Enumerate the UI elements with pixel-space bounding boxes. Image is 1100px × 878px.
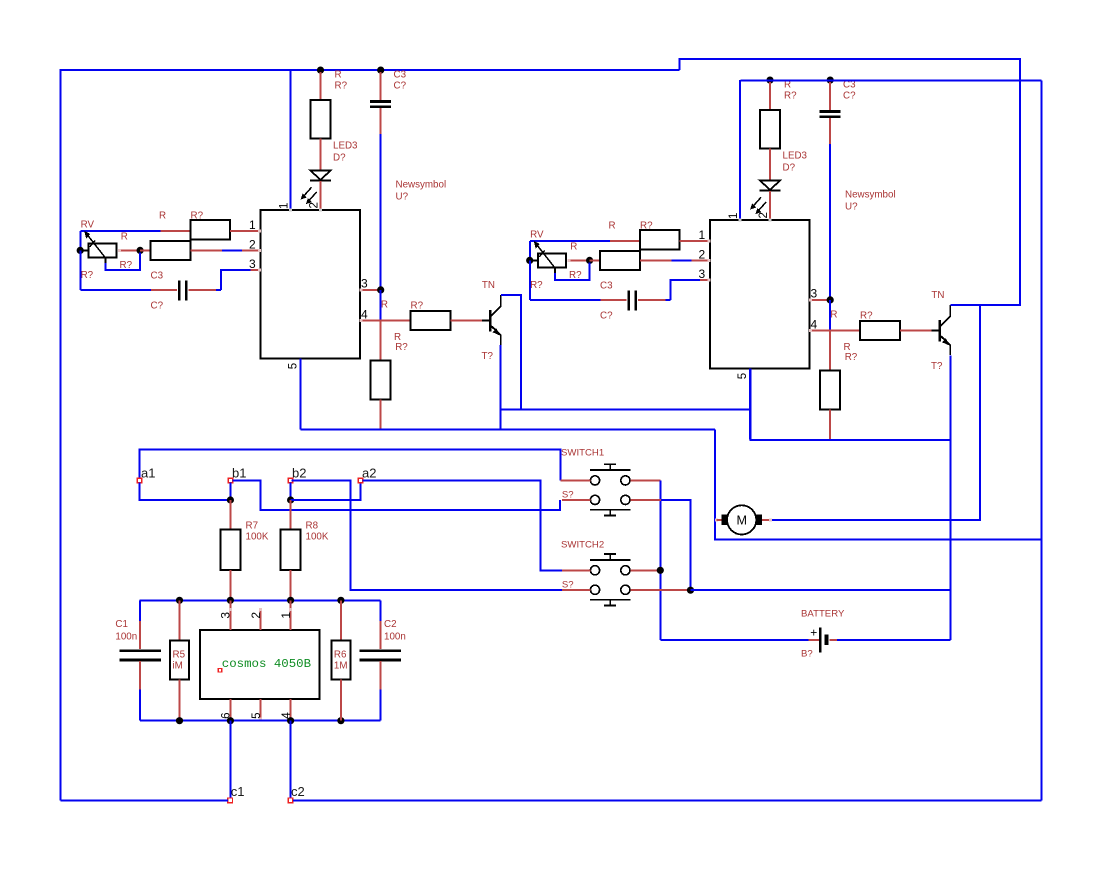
svg-text:C3: C3 <box>151 270 164 281</box>
switch SWITCH2 actuator top <box>604 553 616 555</box>
svg-text:RV: RV <box>81 220 95 231</box>
svg-text:C?: C? <box>843 91 856 102</box>
port a2 <box>358 478 363 483</box>
wire motor right riser <box>771 305 980 520</box>
svg-text:5: 5 <box>251 712 263 718</box>
wire a2 to SWITCH2 row1 <box>363 480 562 570</box>
pin 4 lead and base resistor R? (right) <box>809 329 860 331</box>
RV hook wire (wiper tie) (right) <box>554 268 556 273</box>
svg-text:R?: R? <box>120 260 133 271</box>
LED D? LED3 (left) <box>311 171 331 180</box>
svg-text:1: 1 <box>728 213 740 219</box>
svg-text:5: 5 <box>737 373 749 379</box>
svg-text:C?: C? <box>600 310 613 321</box>
wire RV left down to C3b (left) <box>80 250 82 290</box>
pin 5 of 4050 (bottom, open) <box>260 699 262 719</box>
svg-text:TN: TN <box>931 290 944 301</box>
wire c2 drop <box>290 721 292 799</box>
junction C1/R5 top <box>176 597 183 604</box>
svg-text:U?: U? <box>845 202 858 213</box>
svg-text:R: R <box>609 221 616 232</box>
svg-text:R?: R? <box>81 270 94 281</box>
pin 2 wire (left) <box>190 249 222 251</box>
capacitor C2 100n <box>380 600 382 621</box>
svg-text:c2: c2 <box>291 784 305 799</box>
pin 6 of 4050 (bottom) <box>229 699 231 721</box>
svg-text:B?: B? <box>801 649 813 660</box>
svg-text:R?: R? <box>845 352 858 363</box>
wire b1 to node <box>229 483 231 500</box>
junction pin3/C3 node (right) <box>827 296 834 303</box>
junction RV right (left) <box>137 247 144 254</box>
wire pin5 riser (left) <box>300 359 302 430</box>
wire left emitter down <box>499 345 501 430</box>
svg-text:1: 1 <box>279 203 291 209</box>
port c2 <box>288 798 293 803</box>
svg-text:R?: R? <box>569 270 582 281</box>
wire right outer vertical <box>1040 81 1042 801</box>
svg-text:2: 2 <box>309 202 321 208</box>
svg-text:R?: R? <box>860 311 873 322</box>
outer border left + top rail (left circuit) <box>60 70 679 800</box>
port b2 <box>288 478 293 483</box>
svg-text:a1: a1 <box>141 465 155 480</box>
wire capacitor C3b to pin 3 (right) <box>638 299 666 301</box>
wire battery- from switch drop <box>660 639 808 641</box>
wire b2 run to SWITCH2 row2 <box>292 480 562 590</box>
svg-text:SWITCH2: SWITCH2 <box>561 540 604 551</box>
resistor R (pin2 series) (right) <box>590 259 600 261</box>
svg-text:3: 3 <box>699 267 706 281</box>
svg-text:R?: R? <box>395 342 408 353</box>
pin 2 of 4050 (top, open) <box>260 610 262 631</box>
junction C1/R5 bottom <box>176 717 183 724</box>
switch SWITCH2 actuator bottom <box>590 599 631 601</box>
svg-text:3: 3 <box>219 612 233 619</box>
wire b2 to node <box>290 483 292 500</box>
switch2 row1 right lead <box>631 569 661 571</box>
op-amp/IC U? Newsymbol body (left) <box>261 210 360 359</box>
wire left bottom rail <box>301 429 716 431</box>
potentiometer RV (right) <box>531 259 538 261</box>
svg-text:Newsymbol: Newsymbol <box>396 180 447 191</box>
svg-text:U?: U? <box>396 192 409 203</box>
wire bottom rail right segment <box>293 799 1042 801</box>
pin 3 of 4050 (top) <box>229 600 231 630</box>
switch2 row2 right lead <box>631 589 691 591</box>
switch1 row1 right lead + drop to switch2 <box>631 479 661 481</box>
pin end markers (right) <box>707 239 710 242</box>
svg-text:R7: R7 <box>246 521 259 532</box>
pin 1 of 4050 (top) <box>290 600 292 630</box>
switch2 row2 left lead <box>562 589 590 591</box>
junction switch rows2 / battery+ bus <box>687 587 694 594</box>
wire RV left to pin1 wire corner (left) <box>80 231 82 251</box>
junction on top rail above capacitor C3 (left) <box>377 67 384 74</box>
wire b2 node to a2 <box>291 483 361 500</box>
junction on top rail above capacitor C3 (right) <box>827 77 834 84</box>
resistor R7 100K <box>229 500 231 530</box>
svg-text:T?: T? <box>482 351 494 362</box>
LED light arrows (right) <box>753 197 761 206</box>
switch1 row1 left lead <box>561 479 591 481</box>
op-amp/IC U? Newsymbol body (right) <box>710 220 809 369</box>
potentiometer RV (left) <box>81 249 88 251</box>
wire bottom rail of 4050 block <box>140 720 381 722</box>
svg-text:R?: R? <box>411 301 424 312</box>
svg-text:D?: D? <box>333 153 346 164</box>
transistor T? TN (right) <box>932 329 940 331</box>
wire right top rail <box>740 80 1041 82</box>
svg-text:T?: T? <box>931 361 943 372</box>
resistor R5 iM <box>179 600 181 640</box>
wire emitter/pin5 cross rail to right IC pin5 <box>500 409 750 411</box>
pin 4 of 4050 (bottom) <box>290 699 292 721</box>
wire to capacitor C3b (right) <box>530 299 601 301</box>
svg-text:R6: R6 <box>334 650 347 661</box>
wire right collector link <box>950 304 1020 306</box>
resistor R/R? pulldown vertical (left) <box>380 320 382 360</box>
svg-text:C3: C3 <box>600 280 613 291</box>
junction pin4 bottom <box>287 717 294 724</box>
wire top rail of 4050 block <box>140 599 381 601</box>
wire RV left down to C3b (right) <box>529 260 531 300</box>
wire b1 long run to SWITCH1 row2 <box>233 480 561 510</box>
switch SWITCH1 contacts row2 <box>590 495 599 504</box>
svg-text:b1: b1 <box>232 465 246 480</box>
svg-text:R: R <box>381 300 388 311</box>
svg-text:R: R <box>121 232 128 243</box>
wire pin5 riser (right) <box>749 369 751 440</box>
svg-text:cosmos 4050B: cosmos 4050B <box>222 657 311 671</box>
resistor R/R? vertical (LED series) (left) <box>320 72 322 100</box>
resistor R6 1M <box>340 600 342 640</box>
capacitor C1 100n <box>139 600 141 621</box>
svg-text:100n: 100n <box>384 631 406 642</box>
junction pin3 top <box>227 597 234 604</box>
wire net-top rail (right): pin1 riser <box>739 80 741 220</box>
svg-text:TN: TN <box>482 280 495 291</box>
wire RV left to pin1 wire corner (right) <box>529 241 531 261</box>
pin 2 wire (right) <box>640 259 672 261</box>
wire rows2 bus to battery+ riser <box>691 589 951 591</box>
junction R6 bottom <box>337 717 344 724</box>
svg-text:BATTERY: BATTERY <box>801 609 845 620</box>
wire pin3 node down (right) <box>829 300 831 331</box>
resistor R/R? pulldown vertical (right) <box>829 330 831 370</box>
pin end markers (left) <box>258 229 261 232</box>
svg-text:a2: a2 <box>362 465 376 480</box>
label anchor square (cosmos) <box>218 668 222 672</box>
svg-text:SWITCH1: SWITCH1 <box>561 448 604 459</box>
svg-text:100n: 100n <box>115 631 137 642</box>
svg-text:R?: R? <box>191 211 204 222</box>
switch2 row1 left lead <box>562 569 590 571</box>
svg-text:iM: iM <box>173 661 183 672</box>
switch SWITCH1 actuator top <box>604 463 616 465</box>
capacitor C3/C? top (left) <box>380 72 382 100</box>
wire rail drop to lower bus <box>715 430 1041 540</box>
svg-text:b2: b2 <box>292 465 306 480</box>
svg-text:1: 1 <box>699 228 706 242</box>
RV wiper lead to junction (right) <box>567 259 570 262</box>
switch1 row2 right lead + drop <box>631 499 661 501</box>
pin 1 lead with resistor R? (left) <box>81 230 161 232</box>
wire pin3 node down (left) <box>380 290 382 321</box>
wire right pin5 riser/rail <box>750 369 950 440</box>
junction R6 top <box>337 597 344 604</box>
capacitor C3/C? top (right) <box>829 82 831 110</box>
IC U? cosmos 4050B body <box>200 630 319 699</box>
junction pin3/C3 node (left) <box>377 286 384 293</box>
svg-text:1M: 1M <box>334 661 348 672</box>
wire C3 to pin3 node (right) <box>829 144 831 300</box>
svg-text:3: 3 <box>249 257 256 271</box>
port a1 <box>137 478 142 483</box>
svg-text:LED3: LED3 <box>783 151 808 162</box>
svg-text:M: M <box>736 513 747 527</box>
svg-text:R?: R? <box>530 280 543 291</box>
svg-text:R: R <box>159 211 166 222</box>
svg-text:RV: RV <box>530 230 544 241</box>
wire to capacitor C3b (left) <box>81 289 152 291</box>
junction pin6 bottom <box>227 717 234 724</box>
wire net-top rail (left): pin1 riser <box>290 70 292 210</box>
svg-text:2: 2 <box>249 612 263 619</box>
wire bottom rail left segment <box>60 799 227 801</box>
junction pin1 top <box>287 597 294 604</box>
wire c1 drop <box>229 721 231 799</box>
svg-text:C?: C? <box>151 300 164 311</box>
svg-text:R?: R? <box>335 81 348 92</box>
svg-text:R8: R8 <box>306 521 319 532</box>
junction RV left (right) <box>526 257 533 264</box>
svg-text:LED3: LED3 <box>333 141 358 152</box>
capacitor C3/C? lower (right) <box>627 291 630 311</box>
svg-text:+: + <box>810 626 817 640</box>
svg-text:R: R <box>830 310 837 321</box>
svg-text:100K: 100K <box>306 532 329 543</box>
pin 3 right lead (left) <box>360 289 378 291</box>
svg-text:R5: R5 <box>173 650 186 661</box>
wire capacitor C3b to pin 3 (left) <box>188 289 216 291</box>
svg-text:1: 1 <box>279 612 293 619</box>
switch SWITCH2 contacts row1 <box>590 566 599 575</box>
junction b1 node <box>227 496 234 503</box>
svg-text:R?: R? <box>784 91 797 102</box>
capacitor C3/C? lower (left) <box>178 281 181 301</box>
svg-text:C1: C1 <box>115 619 128 630</box>
RV wiper lead to junction (left) <box>118 249 121 252</box>
svg-text:R?: R? <box>640 221 653 232</box>
wire right emitter to battery <box>949 355 951 639</box>
svg-text:100K: 100K <box>246 532 269 543</box>
svg-text:D?: D? <box>783 163 796 174</box>
pin 1 lead with resistor R? (right) <box>530 240 610 242</box>
junction RV left (left) <box>77 247 84 254</box>
motor M body <box>727 505 756 534</box>
node a1 wire to SWITCH1 <box>140 450 561 481</box>
switch1 row2 left lead <box>562 499 590 501</box>
resistor R/R? vertical (LED series) (right) <box>769 82 771 110</box>
svg-text:2: 2 <box>758 212 770 218</box>
wire battery+ to riser <box>837 639 950 641</box>
svg-text:5: 5 <box>288 363 300 369</box>
svg-text:c1: c1 <box>231 784 245 799</box>
wire left collector to drop <box>501 295 521 410</box>
svg-text:1: 1 <box>249 218 256 232</box>
pin 3 right lead (right) <box>809 299 827 301</box>
junction on top rail above resistor R (left) <box>317 67 324 74</box>
junction b2 node <box>287 496 294 503</box>
switch SWITCH2 contacts row2 <box>590 585 599 594</box>
LED D? LED3 (right) <box>760 181 780 190</box>
svg-text:R: R <box>570 242 577 253</box>
svg-text:Newsymbol: Newsymbol <box>845 190 896 201</box>
pin 4 lead and base resistor R? (left) <box>360 319 411 321</box>
switch SWITCH1 contacts row1 <box>590 476 599 485</box>
switch SWITCH1 actuator bottom <box>590 509 631 511</box>
top step wire to right side <box>680 59 1020 305</box>
svg-text:C2: C2 <box>384 619 397 630</box>
wire C3 to pin3 node (left) <box>380 134 382 290</box>
svg-text:R: R <box>335 70 342 81</box>
transistor T? TN (left) <box>482 319 490 321</box>
wire a1 down to b1 node <box>140 483 231 500</box>
junction switch2 row1 / battery drop <box>657 567 664 574</box>
junction on top rail above resistor R (right) <box>766 77 773 84</box>
junction RV right (right) <box>586 257 593 264</box>
LED light arrows (left) <box>304 187 312 196</box>
RV hook wire (wiper tie) (left) <box>104 258 106 263</box>
resistor R (pin2 series) (left) <box>140 249 150 251</box>
motor terminals <box>721 515 727 525</box>
motor leads <box>715 518 718 521</box>
resistor R8 100K <box>290 500 292 530</box>
port b1 <box>228 478 233 483</box>
svg-text:C?: C? <box>394 81 407 92</box>
port c1 <box>228 798 233 803</box>
battery B? symbol <box>808 639 819 641</box>
svg-text:C3: C3 <box>394 70 407 81</box>
